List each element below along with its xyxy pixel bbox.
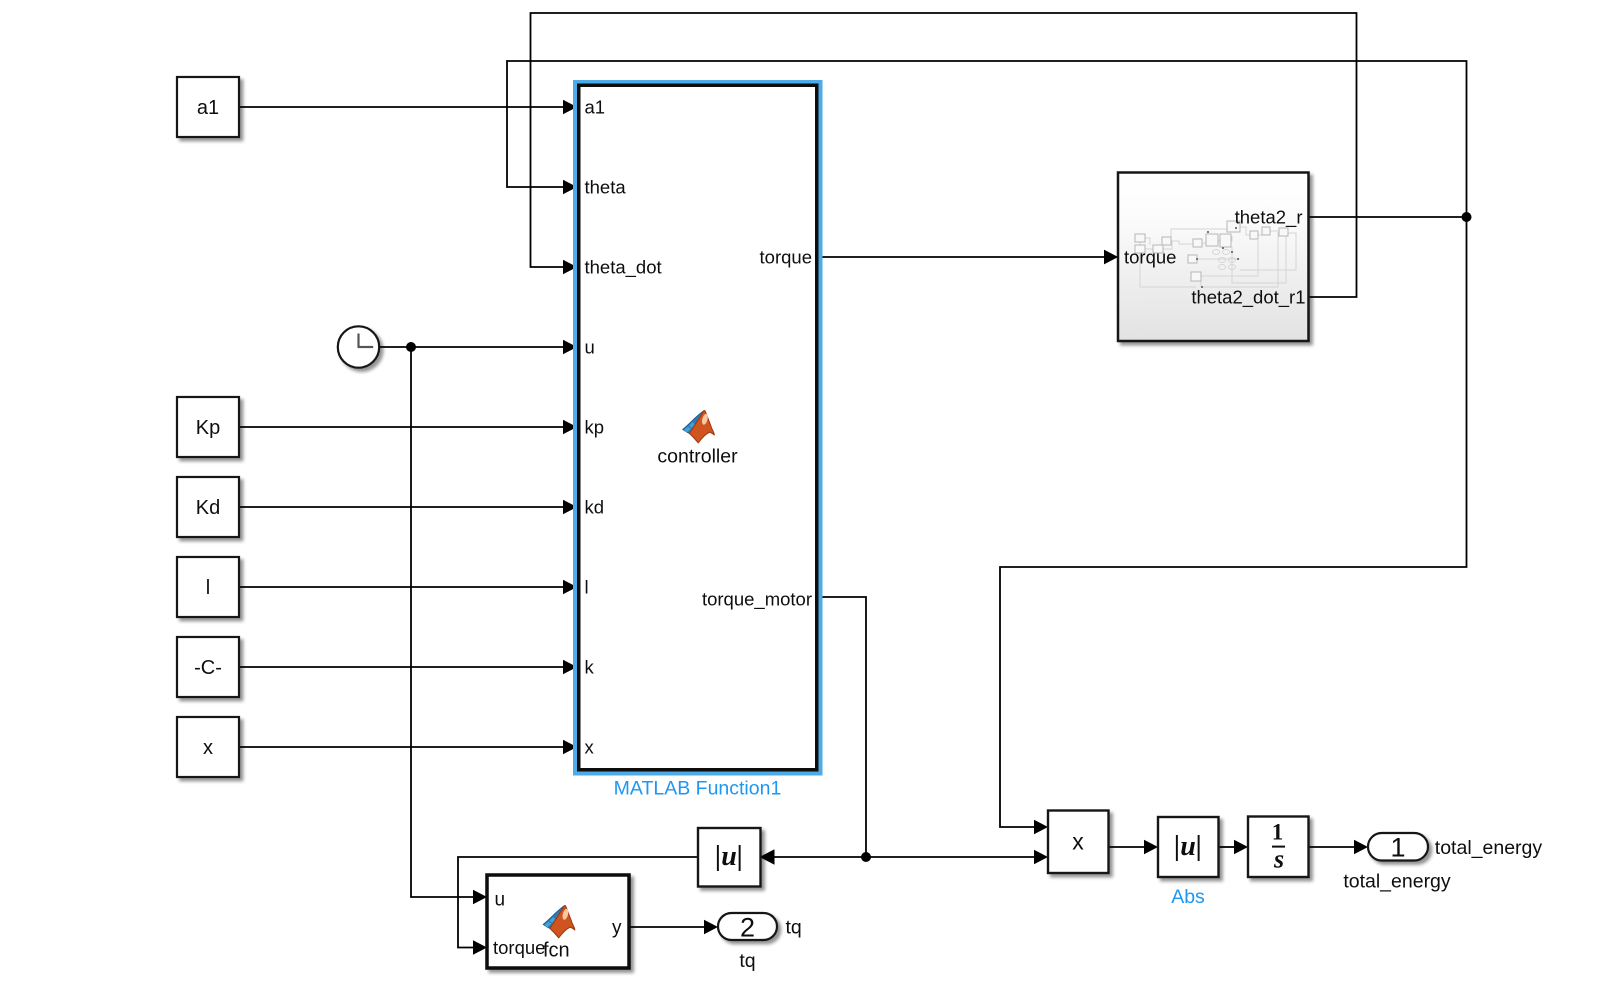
junction node theta2_r [1462,212,1472,222]
wire theta2_dot_r1 to theta_dot input [531,13,1357,297]
svg-text:x: x [203,737,213,759]
svg-text:y: y [612,918,622,939]
wire theta2_r branch to product top input [1000,217,1467,834]
svg-text:theta2_dot_r1: theta2_dot_r1 [1191,287,1305,309]
wire Abs output to integrator [1219,840,1249,854]
svg-text:u: u [495,890,506,911]
svg-text:theta2_r: theta2_r [1235,207,1303,229]
svg-text:torque_motor: torque_motor [702,589,812,611]
block clock [338,326,379,367]
svg-text:torque: torque [760,247,812,268]
svg-text:controller: controller [657,446,738,468]
wire clock to u input [379,340,577,354]
wire Kd to kd input [239,500,577,514]
wire l to l input [239,580,577,594]
block fcn MATLAB Function [487,875,629,968]
wire Abs1 output to fcn torque input [458,857,698,955]
svg-text:a1: a1 [197,97,219,119]
svg-text:kp: kp [585,417,605,438]
svg-text:|u|: |u| [715,841,743,872]
block x source [177,717,239,777]
wire fcn y output to tq outport [629,920,718,934]
svg-text:tq: tq [739,950,755,972]
block Abs [1158,817,1219,877]
wire x source to x input [239,740,577,754]
svg-text:theta_dot: theta_dot [585,257,662,279]
junction node torque_motor [861,852,871,862]
outport 1 total_energy [1368,833,1428,861]
svg-text:k: k [585,657,595,678]
svg-text:-C-: -C- [194,657,222,679]
block Kd source [177,477,239,537]
wire torque_motor to product bottom input [866,850,1048,864]
wire theta2_r output stub [1309,216,1467,218]
wire torque_motor to Abs1 [760,849,867,865]
svg-text:kd: kd [585,497,605,518]
svg-text:l: l [585,577,589,598]
block product x [1048,811,1109,874]
block l source [177,557,239,617]
subsystem input arrow [1104,250,1118,264]
svg-text:1: 1 [1272,820,1284,845]
block a1 source [177,77,239,137]
svg-text:2: 2 [740,913,755,943]
wire torque output to subsystem [823,250,1119,264]
svg-text:Abs: Abs [1171,886,1205,908]
svg-text:x: x [585,737,595,758]
subsystem thumbnail sketch [1140,227,1296,287]
svg-text:u: u [585,337,595,358]
svg-text:Kp: Kp [196,417,220,439]
svg-text:Kd: Kd [196,497,220,519]
block Kp source [177,397,239,457]
block Abs1 [698,828,761,887]
svg-text:tq: tq [786,917,802,939]
block MATLAB Function1 controller (selected) [573,80,823,776]
wire product output to Abs [1109,840,1159,854]
wire clock branch down to fcn u input [411,347,487,904]
svg-text:fcn: fcn [543,940,570,962]
junction node clock [406,342,416,352]
wire -C- to k input [239,660,577,674]
wire torque_motor output down [823,597,867,857]
svg-text:torque: torque [1124,247,1176,268]
svg-text:theta: theta [585,177,627,198]
block integrator 1/s [1248,817,1309,878]
svg-text:a1: a1 [585,97,606,118]
wire a1 source to a1 input [239,100,577,114]
svg-text:s: s [1273,845,1284,874]
matlab logo fcn [543,906,575,938]
block subsystem (plant) [1118,173,1309,342]
svg-text:l: l [206,577,210,599]
svg-text:total_energy: total_energy [1435,837,1543,859]
svg-text:torque: torque [493,937,545,958]
matlab logo controller [683,411,715,443]
svg-text:total_energy: total_energy [1343,871,1451,893]
svg-text:1: 1 [1390,833,1405,863]
wire integrator output to total_energy outport [1309,840,1369,854]
svg-text:x: x [1072,829,1084,855]
svg-text:|u|: |u| [1174,831,1202,862]
wire theta2_r feedback to theta input [507,61,1467,217]
wire Kp to kp input [239,420,577,434]
outport 2 tq [718,913,777,940]
svg-text:MATLAB Function1: MATLAB Function1 [614,778,782,800]
block -C- constant [177,637,239,697]
